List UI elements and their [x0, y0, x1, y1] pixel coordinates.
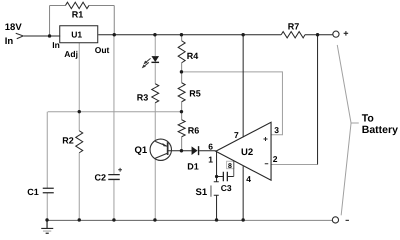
svg-text:Adj: Adj [64, 49, 78, 59]
svg-text:1: 1 [208, 154, 213, 164]
svg-text:2: 2 [273, 154, 278, 164]
svg-text:Battery: Battery [362, 124, 398, 136]
svg-text:R4: R4 [187, 51, 199, 61]
svg-text:3: 3 [274, 125, 279, 135]
svg-text:6: 6 [208, 141, 213, 151]
svg-text:C1: C1 [27, 187, 39, 197]
svg-text:18V: 18V [5, 22, 23, 33]
svg-text:R5: R5 [189, 88, 201, 98]
svg-text:To: To [362, 112, 374, 124]
svg-text:Q1: Q1 [135, 145, 148, 156]
svg-text:Out: Out [95, 45, 110, 55]
svg-text:4: 4 [246, 174, 251, 184]
svg-text:U2: U2 [241, 147, 253, 158]
svg-text:C2: C2 [95, 172, 107, 182]
svg-text:In: In [5, 36, 14, 47]
svg-text:R2: R2 [62, 135, 74, 145]
svg-text:D1: D1 [187, 161, 199, 171]
svg-text:R6: R6 [188, 125, 200, 135]
svg-text:R7: R7 [288, 21, 300, 31]
svg-text:C3: C3 [221, 183, 232, 193]
svg-text:R3: R3 [137, 92, 149, 102]
svg-text:In: In [52, 40, 60, 50]
svg-text:8: 8 [228, 163, 232, 170]
svg-text:R1: R1 [72, 9, 84, 19]
svg-text:7: 7 [234, 130, 239, 140]
svg-text:S1: S1 [196, 187, 208, 198]
svg-text:U1: U1 [71, 29, 82, 39]
